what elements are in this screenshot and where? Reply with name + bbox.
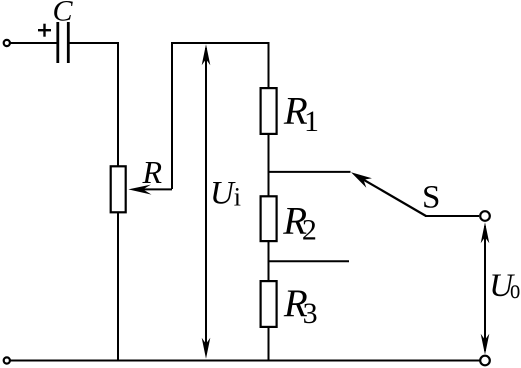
input terminal top-left bbox=[4, 40, 10, 46]
wire: top rail bbox=[171, 42, 270, 44]
voltage arrow Ui (double headed) bbox=[202, 44, 211, 358]
wire: R1 to R2 bbox=[268, 133, 270, 197]
voltage arrow Uo (double headed) bbox=[481, 222, 490, 354]
wire: R2 to R3 bbox=[268, 240, 270, 282]
bottom rail wire bbox=[10, 360, 480, 362]
capacitor C1 plates bbox=[58, 22, 69, 63]
svg-text:S: S bbox=[422, 180, 440, 216]
svg-text:o: o bbox=[510, 275, 520, 304]
output terminal right-bottom bbox=[480, 356, 490, 366]
svg-text:R: R bbox=[142, 154, 163, 190]
node wire: R1-R2 junction to switch contact bbox=[269, 171, 351, 173]
wire: input terminal to capacitor bbox=[10, 42, 57, 44]
svg-text:1: 1 bbox=[304, 105, 319, 138]
resistor R3 body bbox=[261, 281, 277, 327]
svg-text:2: 2 bbox=[302, 214, 317, 247]
label R1 bbox=[283, 90, 319, 139]
potentiometer wiper arrow bbox=[128, 185, 172, 195]
wire: top rail down to R1 bbox=[268, 43, 270, 88]
svg-text:i: i bbox=[234, 183, 241, 212]
output terminal right-top bbox=[480, 211, 490, 221]
label R2 bbox=[282, 200, 317, 247]
wire: switch pivot to output terminal bbox=[425, 215, 479, 217]
wire: wiper up to top rail bbox=[171, 43, 173, 189]
wire: potentiometer bottom to bottom rail bbox=[117, 212, 119, 360]
svg-text:U: U bbox=[210, 175, 236, 211]
resistor R2 body bbox=[261, 196, 277, 241]
polarity plus sign bbox=[38, 24, 51, 37]
label Uo bbox=[489, 268, 520, 304]
label Ui bbox=[210, 175, 241, 211]
potentiometer R body bbox=[111, 166, 126, 212]
svg-text:C: C bbox=[53, 0, 74, 28]
wire: capacitor to corner bbox=[70, 43, 119, 167]
resistor R1 body bbox=[261, 88, 277, 134]
ground-side terminal bottom-left bbox=[4, 357, 10, 363]
open throw contact wire from R2-R3 junction bbox=[269, 260, 350, 262]
label R3 bbox=[283, 282, 318, 330]
switch S blade with arrow bbox=[351, 172, 426, 216]
wire: R3 to bottom rail bbox=[268, 326, 270, 360]
svg-text:3: 3 bbox=[303, 297, 318, 330]
